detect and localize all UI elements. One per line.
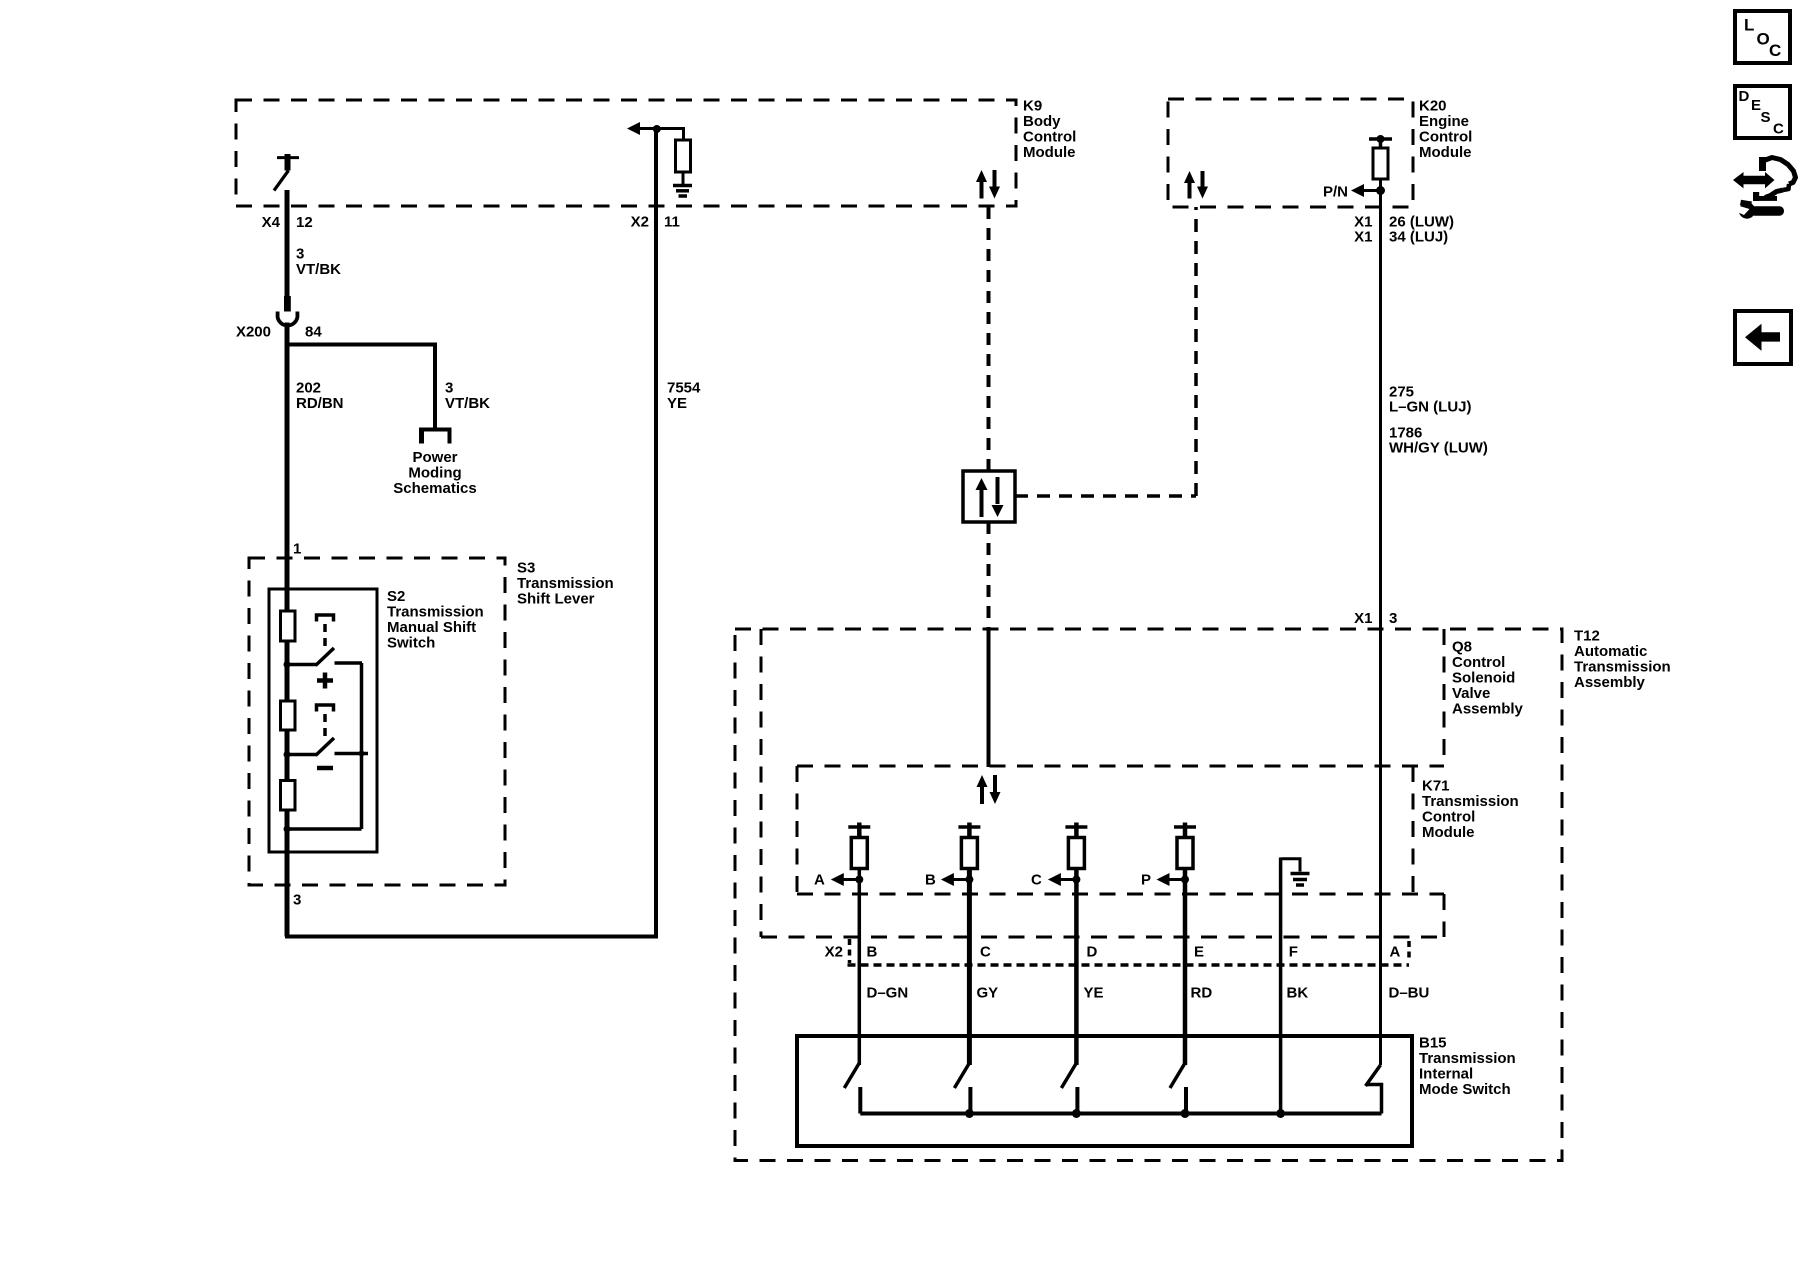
wire solenoid P down to X2 [1183, 869, 1188, 1066]
solenoid driver resistor P [1177, 838, 1193, 869]
solenoid driver output C : supply tap [1065, 823, 1087, 839]
svg-text:T12: T12 [1574, 628, 1600, 645]
svg-text:VT/BK: VT/BK [445, 395, 490, 412]
svg-text:S2: S2 [387, 588, 405, 605]
wire 275 L-GN / 1786 WH/GY (K20 X1 down to B15 pin A) [1379, 191, 1382, 1066]
svg-text:X200: X200 [236, 324, 271, 341]
node: junction at K9 internal (X2-11) [653, 125, 661, 133]
svg-text:C: C [980, 944, 991, 961]
wire 7554 YE (S2 pin3 to K9 X2-11) [287, 129, 656, 937]
node: branch junction below X200 [285, 343, 437, 347]
svg-text:Body: Body [1023, 113, 1061, 130]
solenoid driver output A : supply tap [848, 823, 870, 839]
svg-text:Manual Shift: Manual Shift [387, 619, 476, 636]
svg-text:Assembly: Assembly [1574, 674, 1646, 691]
dashed wire inline connector to T12 [987, 522, 991, 629]
pin label 3 (S3) [293, 892, 301, 909]
svg-text:Mode Switch: Mode Switch [1419, 1081, 1511, 1098]
svg-text:E: E [1194, 944, 1204, 961]
K71 Transmission Control Module (dashed box) [797, 766, 1519, 894]
svg-text:GY: GY [977, 985, 999, 1002]
svg-text:Schematics: Schematics [393, 480, 476, 497]
signal arrow into K9 logic [627, 122, 657, 135]
svg-text:Engine: Engine [1419, 113, 1469, 130]
svg-text:A: A [1390, 944, 1401, 961]
switch S (ignition signal) inside K9 [274, 154, 299, 191]
node junction A [855, 876, 863, 884]
wire into K71 (from inline connector) [987, 628, 991, 767]
svg-text:Transmission: Transmission [1574, 659, 1671, 676]
svg-text:Solenoid: Solenoid [1452, 670, 1515, 687]
connector X2 row (dotted) [825, 939, 1409, 965]
S2 right return bus [284, 663, 362, 833]
svg-text:A: A [814, 872, 825, 889]
svg-text:X1: X1 [1354, 229, 1372, 246]
ground symbol in K9 [673, 186, 692, 197]
node junction P [1181, 876, 1189, 884]
svg-text:Control: Control [1422, 809, 1475, 826]
svg-text:X2: X2 [631, 214, 649, 231]
svg-text:P/N: P/N [1323, 184, 1348, 201]
svg-text:X2: X2 [825, 944, 843, 961]
wire from K9 pin X4-12 (3 VT/BK) [285, 190, 290, 298]
pull-up resistor in K9 [676, 140, 691, 185]
inline connector (double-arrow box) [963, 471, 1015, 522]
svg-text:BK: BK [1287, 985, 1309, 1002]
solenoid driver output P : supply tap [1174, 823, 1196, 839]
svg-text:S3: S3 [517, 560, 535, 577]
node junction B [965, 876, 973, 884]
module K20 Engine Control Module [1168, 98, 1472, 208]
node P/N with arrow [1323, 184, 1385, 201]
mode switch blade (B wire) [954, 1063, 970, 1114]
common bus inside B15 [860, 1109, 1381, 1118]
svg-text:202: 202 [296, 380, 321, 397]
svg-text:B: B [925, 872, 936, 889]
svg-text:3: 3 [445, 380, 453, 397]
resistor R-lower in S2 [281, 781, 296, 811]
switch contact - (tap down) actuator [317, 705, 334, 738]
wire label 7554 YE [667, 380, 701, 413]
svg-text:D: D [1087, 944, 1098, 961]
T12 Automatic Transmission Assembly (dashed box) [735, 628, 1671, 1161]
svg-text:Module: Module [1023, 144, 1076, 161]
solenoid driver resistor B [961, 838, 977, 869]
svg-text:Transmission: Transmission [517, 575, 614, 592]
svg-text:D–BU: D–BU [1389, 985, 1430, 1002]
off-page double-arrow in K71 [977, 775, 1001, 804]
wire label 3 VT/BK [296, 246, 341, 279]
svg-text:D–GN: D–GN [867, 985, 909, 1002]
svg-text:Control: Control [1419, 129, 1472, 146]
node junction C [1072, 876, 1080, 884]
svg-text:C: C [1031, 872, 1042, 889]
mode switch blade (A wire) [844, 1063, 860, 1114]
wire solenoid A down to X2 [858, 869, 862, 1066]
signal arrow P [1141, 872, 1185, 889]
off-page double-arrow in K9 [976, 170, 1000, 199]
svg-text:3: 3 [1389, 610, 1397, 627]
svg-text:Internal: Internal [1419, 1066, 1473, 1083]
svg-text:S: S [1761, 109, 1771, 126]
svg-text:WH/GY (LUW): WH/GY (LUW) [1389, 440, 1488, 457]
svg-text:VT/BK: VT/BK [296, 261, 341, 278]
wire BK (ground) down to B15 [1279, 858, 1283, 1114]
icon LOC [1735, 11, 1790, 63]
wire label 3 VT/BK (branch) [445, 380, 490, 413]
solenoid driver resistor A [851, 838, 867, 869]
pin labels X1 26 (LUW) / X1 34 (LUJ) [1354, 214, 1454, 246]
wire color labels D-GN GY YE RD BK D-BU [867, 985, 1430, 1002]
svg-text:B15: B15 [1419, 1035, 1447, 1052]
plus sign label [317, 673, 333, 689]
svg-text:D: D [1739, 88, 1750, 105]
svg-text:1: 1 [293, 541, 301, 558]
signal arrow B [925, 872, 969, 889]
pin letters B C D E F A [867, 944, 1401, 961]
pull-up resistor in K20 [1373, 148, 1388, 191]
svg-text:34 (LUJ): 34 (LUJ) [1389, 229, 1448, 246]
svg-text:YE: YE [1084, 985, 1104, 1002]
solenoid driver output B : supply tap [958, 823, 980, 839]
svg-text:Control: Control [1023, 129, 1076, 146]
svg-text:Moding: Moding [408, 465, 461, 482]
svg-text:3: 3 [293, 892, 301, 909]
B15 Transmission Internal Mode Switch (solid box) [797, 1035, 1516, 1147]
switch - right contact [335, 751, 369, 757]
svg-text:Shift Lever: Shift Lever [517, 591, 595, 608]
svg-text:K71: K71 [1422, 778, 1450, 795]
svg-text:Q8: Q8 [1452, 639, 1472, 656]
signal arrow A [814, 872, 859, 889]
icon back arrow [1735, 311, 1791, 364]
ground symbol in K71 [1281, 859, 1310, 885]
svg-text:Module: Module [1419, 144, 1472, 161]
svg-text:Transmission: Transmission [387, 604, 484, 621]
svg-text:Transmission: Transmission [1419, 1050, 1516, 1067]
S2 Transmission Manual Shift Switch (solid box) [269, 588, 484, 852]
switch + right contact [335, 661, 363, 665]
svg-text:RD/BN: RD/BN [296, 395, 344, 412]
svg-text:X1: X1 [1354, 610, 1372, 627]
mode switch blade (C wire) [1061, 1063, 1077, 1114]
svg-text:C: C [1769, 41, 1781, 60]
svg-text:E: E [1751, 97, 1761, 114]
wire inside S2 (main ladder) [285, 560, 290, 937]
svg-text:L–GN (LUJ): L–GN (LUJ) [1389, 399, 1472, 416]
svg-text:B: B [867, 944, 878, 961]
dashed wire inline connector to K20 [1015, 207, 1196, 496]
wire to pull-up resistor in K9 [655, 129, 684, 142]
branch wire 3 VT/BK to Power Moding [433, 345, 437, 429]
mode switch blade (D-BU wire, pin A) [1366, 1065, 1382, 1114]
svg-text:L: L [1744, 16, 1754, 35]
icon schematic navigation (double arrow, outline, wrench) [1733, 157, 1796, 201]
mode switch blade (P wire) [1170, 1063, 1186, 1114]
svg-text:Transmission: Transmission [1422, 793, 1519, 810]
off-page double-arrow in K20 [1184, 171, 1208, 199]
svg-text:12: 12 [296, 214, 313, 231]
icon DESC [1735, 86, 1790, 138]
wire label 202 RD/BN [296, 380, 344, 413]
module K9 Body Control Module [236, 98, 1076, 207]
resistor R-middle in S2 [281, 701, 296, 730]
wire solenoid C down to X2 [1074, 869, 1079, 1066]
pin label 1 (S3) [293, 541, 301, 558]
solenoid driver resistor C [1068, 838, 1084, 869]
svg-text:C: C [1773, 121, 1784, 138]
svg-text:11: 11 [664, 214, 680, 231]
wire 202 RD/BN (X200 down to S3 pin 1) [285, 323, 290, 561]
svg-text:K9: K9 [1023, 98, 1042, 115]
svg-text:Automatic: Automatic [1574, 643, 1647, 660]
switch blade + (tap up) [284, 648, 335, 668]
svg-text:K20: K20 [1419, 98, 1447, 115]
svg-text:RD: RD [1191, 985, 1213, 1002]
off-page connector: Power Moding Schematics [393, 428, 476, 497]
svg-text:Assembly: Assembly [1452, 701, 1524, 718]
svg-text:Control: Control [1452, 654, 1505, 671]
svg-text:3: 3 [296, 246, 304, 263]
svg-text:84: 84 [305, 324, 322, 341]
signal arrow C [1031, 872, 1076, 889]
svg-text:7554: 7554 [667, 380, 701, 397]
pin label X4 12 [262, 214, 313, 231]
svg-text:Module: Module [1422, 824, 1475, 841]
switch contact + (tap up) actuator [317, 615, 334, 648]
S3 Transmission Shift Lever (dashed box) [249, 558, 614, 885]
wire labels 275 L-GN (LUJ), 1786 WH/GY (LUW) [1389, 384, 1488, 457]
sensor supply tap in K20 [1369, 135, 1392, 149]
connector X200 pin 84 [236, 296, 322, 341]
svg-text:YE: YE [667, 395, 687, 412]
minus sign label [317, 766, 333, 771]
svg-text:O: O [1757, 30, 1770, 49]
switch blade - (tap down) [284, 738, 335, 758]
svg-text:Switch: Switch [387, 635, 435, 652]
icon wrench [1735, 200, 1785, 219]
dashed wire K9 to inline connector [987, 207, 991, 471]
svg-text:X4: X4 [262, 214, 281, 231]
pin label X2 11 [631, 214, 680, 231]
svg-text:Power: Power [412, 449, 457, 466]
pin label X1 3 (T12) [1354, 610, 1397, 627]
svg-text:Valve: Valve [1452, 685, 1490, 702]
wire solenoid B down to X2 [967, 869, 972, 1066]
svg-text:P: P [1141, 872, 1151, 889]
resistor R-upper in S2 [281, 611, 296, 641]
Q8 Control Solenoid Valve Assembly (dashed box) [761, 629, 1524, 937]
svg-text:F: F [1289, 944, 1298, 961]
